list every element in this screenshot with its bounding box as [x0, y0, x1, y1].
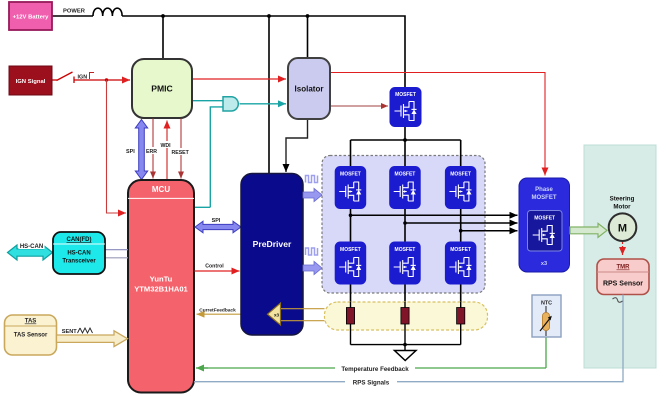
- svg-text:NTC: NTC: [541, 301, 552, 307]
- svg-text:CAN(FD): CAN(FD): [67, 237, 92, 243]
- svg-text:YTM32B1HA01: YTM32B1HA01: [134, 285, 188, 294]
- svg-text:Motor: Motor: [613, 204, 631, 211]
- svg-text:SPI: SPI: [212, 218, 221, 224]
- svg-text:Isolator: Isolator: [295, 85, 324, 94]
- svg-text:Transceiver: Transceiver: [62, 259, 96, 265]
- svg-text:HS-CAN: HS-CAN: [20, 244, 43, 250]
- svg-text:MCU: MCU: [152, 185, 170, 194]
- svg-text:YunTu: YunTu: [150, 275, 173, 284]
- svg-text:WDI: WDI: [161, 143, 172, 149]
- svg-text:RPS Sensor: RPS Sensor: [603, 281, 643, 288]
- svg-text:MOSFET: MOSFET: [532, 195, 557, 201]
- svg-text:TAS: TAS: [25, 319, 37, 325]
- svg-text:+12V Battery: +12V Battery: [13, 15, 50, 21]
- svg-text:Steering: Steering: [610, 196, 635, 203]
- svg-text:Temperature Feedback: Temperature Feedback: [341, 366, 409, 373]
- svg-text:Phase: Phase: [535, 187, 553, 193]
- svg-text:SPI: SPI: [126, 149, 135, 155]
- svg-text:PreDriver: PreDriver: [253, 239, 292, 249]
- svg-text:IGN Signal: IGN Signal: [16, 79, 46, 85]
- svg-text:TMR: TMR: [617, 265, 631, 271]
- svg-text:TAS Sensor: TAS Sensor: [14, 333, 48, 339]
- svg-text:PMIC: PMIC: [151, 84, 172, 94]
- svg-text:IGN: IGN: [78, 75, 88, 81]
- svg-text:HS-CAN: HS-CAN: [67, 251, 90, 257]
- svg-text:ERR: ERR: [146, 149, 157, 155]
- svg-text:SENT: SENT: [62, 329, 78, 335]
- svg-text:MOSFET: MOSFET: [534, 216, 555, 222]
- svg-text:RPS Signals: RPS Signals: [353, 380, 390, 387]
- svg-text:MOSFET: MOSFET: [395, 92, 416, 98]
- svg-text:x3: x3: [274, 313, 280, 318]
- svg-text:M: M: [618, 223, 627, 235]
- svg-text:CurretFeedback: CurretFeedback: [199, 308, 236, 314]
- svg-text:RESET: RESET: [172, 150, 190, 156]
- svg-text:POWER: POWER: [63, 9, 86, 15]
- svg-text:x3: x3: [541, 261, 547, 267]
- svg-text:Control: Control: [205, 264, 224, 270]
